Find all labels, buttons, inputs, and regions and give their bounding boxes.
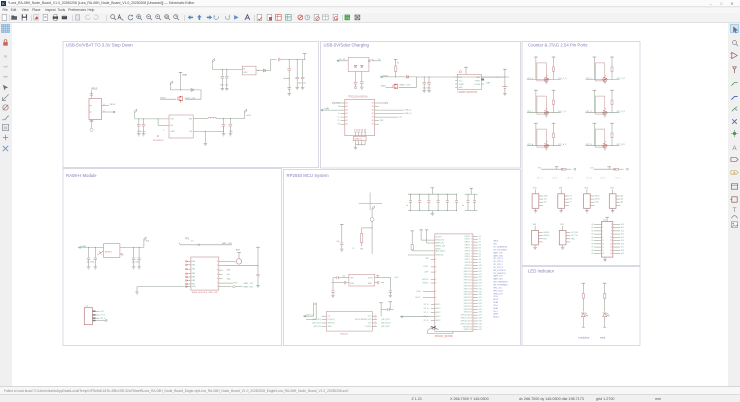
battery BT1 (504, 77, 506, 87)
svg-text:10u 100n: 10u 100n (423, 87, 431, 89)
push button SW red (544, 111, 549, 114)
svg-text:G1: G1 (591, 227, 593, 229)
power tick LED chain ready/low (582, 282, 586, 284)
svg-text:27: 27 (470, 312, 472, 314)
left toolbar icon: close (1, 144, 10, 153)
section box: USB-5V/VBAT TO 3.3V Step Down (63, 42, 319, 168)
svg-text:G7: G7 (479, 256, 481, 258)
capacitor C7 (302, 60, 304, 78)
svg-text:9: 9 (435, 272, 436, 274)
pin stubs J4 (539, 195, 543, 197)
wire module TX (223, 286, 232, 288)
resistor LED chain work (604, 294, 606, 299)
power tick battery rail (503, 68, 507, 70)
bottom tick LED work (603, 326, 606, 328)
svg-text:TEMP: TEMP (459, 84, 465, 86)
svg-text:GP_E: GP_E (424, 320, 430, 322)
svg-text:1: 1 (471, 236, 472, 238)
ground J8 (534, 245, 536, 247)
capacitor C10 (223, 119, 225, 125)
counter box (537, 129, 546, 147)
capacitor C20 on right rail (256, 274, 260, 275)
svg-text:GND: GND (459, 87, 464, 89)
capacitor C13 polarized (360, 82, 364, 83)
net arrow label VBAT to LDO (78, 246, 80, 248)
svg-text:G14: G14 (621, 237, 624, 239)
capacitor C5 (288, 60, 290, 69)
svg-text:G19: G19 (479, 291, 482, 293)
svg-text:2: 2 (471, 239, 472, 241)
svg-text:GP_CNT_U: GP_CNT_U (493, 258, 504, 260)
svg-text:EN: EN (121, 254, 124, 256)
bottom wire (586, 112, 620, 114)
wire LED chain mid ready/low (582, 298, 584, 311)
resistor pullup (614, 168, 619, 170)
svg-text:USB_DM: USB_DM (436, 255, 444, 257)
power flag 3V3 output (244, 113, 246, 119)
wire right stem upper (553, 123, 555, 133)
right rail vertical (257, 247, 259, 274)
wire Q1 drain down (179, 101, 181, 103)
left toolbar icon: hidden pins (1, 103, 10, 112)
power tick output (303, 53, 307, 55)
wire D2 to output rail (266, 60, 277, 71)
capacitor C8 (138, 119, 140, 125)
svg-text:XOUT: XOUT (368, 277, 374, 279)
svg-text:SDA: SDA (227, 277, 232, 280)
left toolbar background (0, 23, 12, 386)
power tick left stem (593, 89, 597, 91)
main toolbar (0, 13, 740, 23)
ground under button (545, 80, 547, 82)
connector J3 USB (345, 99, 375, 135)
wire VBUS chain lower (395, 72, 397, 77)
svg-text:DO(IO1): DO(IO1) (328, 319, 335, 321)
ground module left (136, 287, 138, 292)
svg-text:G3: G3 (591, 234, 593, 236)
section box: RP2040 MCU System (284, 170, 521, 346)
svg-text:B1: B1 (372, 103, 374, 105)
power tick chain C (340, 223, 344, 225)
svg-text:UART_RX1: UART_RX1 (243, 285, 253, 288)
svg-text:16: 16 (470, 280, 472, 282)
svg-text:10: 10 (610, 237, 612, 239)
resistor pullup (561, 168, 566, 170)
capacitor C21 chain C (340, 243, 343, 244)
wire LED chain upper work (604, 283, 606, 293)
wire right stem upper (553, 90, 555, 100)
wire EN tie (157, 119, 159, 125)
wire U1 SW to inductor (193, 118, 208, 120)
capacitor C12 (354, 83, 358, 84)
wire U1 FB (193, 130, 223, 132)
capacitor C2 (221, 69, 223, 76)
svg-text:UART_TX1: UART_TX1 (493, 275, 502, 278)
capacitor C1 (90, 120, 94, 121)
wire left stem (535, 123, 537, 146)
capacitor C14 (423, 77, 425, 82)
toolbar icon: redo (disabled) (93, 14, 100, 21)
svg-text:GPIO3: GPIO3 (465, 247, 470, 249)
svg-text:8: 8 (471, 256, 472, 258)
svg-text:A1: A1 (346, 109, 348, 112)
svg-text:QSPI_SD2: QSPI_SD2 (312, 323, 321, 325)
toolbar icon: rotate ccw (213, 14, 220, 21)
ground U1 path (204, 131, 206, 143)
svg-text:100n 10u: 100n 10u (137, 131, 145, 133)
circle terminal J3 right (386, 102, 388, 104)
svg-text:100u 10u: 100u 10u (298, 83, 306, 85)
transistor Q1 (178, 96, 182, 102)
svg-text:1M: 1M (360, 249, 363, 251)
svg-text:SH: SH (338, 124, 341, 126)
svg-text:A1: A1 (346, 123, 348, 126)
ground under button (604, 80, 606, 82)
capacitor CB7 (467, 194, 469, 200)
svg-text:RST: RST (234, 283, 239, 285)
connector J8 (532, 230, 539, 245)
svg-text:GPIO: GPIO (436, 308, 441, 310)
svg-text:GPIO8: GPIO8 (465, 262, 470, 264)
svg-text:10u 100n: 10u 100n (132, 262, 140, 264)
right toolbar icon: image (730, 220, 739, 229)
svg-text:VB1: VB1 (493, 244, 497, 246)
ground under C13 (361, 83, 363, 87)
toolbar icon: annotate (304, 14, 311, 21)
power flag PWR1 (170, 81, 172, 84)
svg-text:SWDIO: SWDIO (543, 232, 550, 234)
bottom wire (527, 79, 561, 81)
svg-text:ANT: ANT (236, 249, 241, 252)
svg-text:18: 18 (470, 285, 472, 287)
module right pin stubs (219, 260, 223, 262)
svg-text:2: 2 (611, 224, 612, 226)
svg-text:VBAT: VBAT (381, 84, 387, 87)
svg-text:GPIO29_A3: GPIO29_A3 (461, 322, 470, 325)
junction 3v3 rail (258, 265, 259, 266)
wire left stem (535, 90, 537, 113)
svg-text:BAT: BAT (477, 76, 481, 79)
wire tie at C5 (283, 77, 289, 79)
svg-text:GPIO0: GPIO0 (465, 239, 470, 241)
mcu left upper power stems (410, 230, 414, 232)
svg-text:G26: G26 (479, 312, 482, 314)
svg-text:DI(IO0): DI(IO0) (366, 326, 372, 328)
pin stubs J10 right (613, 223, 620, 225)
svg-text:R: R (587, 315, 589, 317)
svg-text:J10: J10 (603, 219, 607, 221)
svg-text:SDA0: SDA0 (493, 301, 498, 304)
svg-text:CNT_X: CNT_X (615, 177, 622, 179)
ground under C3 (226, 78, 228, 89)
svg-text:I2C_SCL0/MISO: I2C_SCL0/MISO (493, 249, 507, 251)
left toolbar icon: units inches (1, 51, 10, 60)
svg-text:EN: EN (170, 125, 173, 127)
wire right stem lower (611, 105, 613, 113)
counter box (537, 63, 546, 81)
flash vertical wires from above (313, 303, 315, 317)
svg-text:GPIO24: GPIO24 (464, 309, 470, 311)
svg-text:GND: GND (170, 131, 175, 133)
pin stubs U4 left (455, 76, 457, 78)
svg-text:GP_CNT_R: GP_CNT_R (493, 267, 504, 269)
svg-text:PA4: PA4 (192, 268, 195, 271)
svg-text:G8: G8 (591, 250, 593, 252)
svg-text:G7: G7 (591, 247, 593, 249)
wire chain A upper (371, 210, 373, 218)
svg-text:G31: G31 (479, 326, 482, 328)
svg-text:SCK: SCK (595, 202, 599, 204)
capacitor C9 (143, 119, 145, 125)
svg-text:GND PAD: GND PAD (432, 328, 440, 331)
right toolbar icon: text (730, 205, 739, 214)
wire left stem (593, 57, 595, 80)
svg-text:SWDIO: SWDIO (422, 282, 429, 284)
svg-text:15: 15 (470, 277, 472, 279)
svg-text:SW: SW (189, 119, 192, 121)
mcu left long wire (408, 254, 435, 256)
svg-text:A1: A1 (346, 105, 348, 108)
svg-text:D-: D- (338, 113, 340, 115)
wire under R4 (361, 243, 363, 247)
ellipse at module TX (232, 286, 235, 288)
svg-text:OSC: OSC (394, 277, 399, 279)
svg-text:8: 8 (611, 234, 612, 236)
status circle at U4 (459, 71, 461, 73)
svg-text:GP_C: GP_C (424, 312, 430, 314)
left toolbar icon: hierarchy (1, 123, 10, 132)
toolbar icon: table (322, 14, 329, 21)
svg-text:GPIO23: GPIO23 (464, 306, 470, 308)
ground under esd (354, 148, 358, 150)
svg-text:VB: VB (338, 106, 341, 108)
toolbar icon: plot (61, 14, 68, 21)
right toolbar icon: add bus (730, 92, 739, 101)
counter box (595, 96, 604, 114)
wire left stem (593, 90, 595, 113)
svg-text:3V3: 3V3 (533, 224, 536, 226)
led D work (603, 313, 609, 317)
svg-text:G17: G17 (479, 285, 482, 287)
svg-text:MCLK: MCLK (493, 299, 499, 301)
ic U2 boost (242, 66, 256, 75)
junction FB (205, 131, 206, 132)
svg-text:CLK: CLK (368, 323, 372, 325)
svg-text:CNT_D_R: CNT_D_R (616, 78, 625, 80)
push button SW red (544, 77, 549, 80)
pin stubs J5 (565, 195, 569, 197)
mcu arrow label left bottom (400, 316, 402, 318)
wire VBAT to Q2 (386, 86, 393, 88)
connector J6 (584, 194, 591, 209)
wire L1 to output node (216, 118, 244, 120)
svg-text:ANT_1G4: ANT_1G4 (222, 242, 232, 245)
wire left stem (535, 57, 537, 80)
svg-text:USB_D-: USB_D- (404, 110, 412, 112)
svg-text:G29: G29 (479, 320, 482, 322)
flash left pin stubs (322, 315, 327, 317)
junction charger rail b (429, 77, 430, 78)
svg-text:PA8: PA8 (192, 276, 195, 279)
power tick right stem (552, 56, 556, 58)
svg-text:CNT_B_R: CNT_B_R (616, 144, 625, 146)
resistor on right stem (611, 100, 613, 104)
svg-text:CNT_D: CNT_D (586, 78, 593, 80)
wire node VBAT to diode (170, 89, 191, 91)
svg-text:18: 18 (610, 250, 612, 252)
svg-text:GND: GND (571, 238, 576, 240)
svg-text:LED Indicator: LED Indicator (528, 268, 555, 273)
pin stubs J10 left (594, 223, 601, 225)
svg-text:VBUS: VBUS (160, 98, 166, 100)
right vertical crystal (389, 278, 391, 291)
svg-text:G11: G11 (479, 268, 482, 270)
left toolbar icon: cursor shape (1, 83, 10, 92)
crystal circle Y1 (370, 218, 374, 222)
wire module 3V3 rail (223, 265, 259, 267)
ground under C24 (332, 292, 334, 295)
antenna connector P1 circle (236, 259, 241, 264)
svg-text:SPI0_SCK1: SPI0_SCK1 (493, 290, 503, 292)
svg-text:1u: 1u (406, 205, 408, 207)
wire right stem lower (611, 71, 613, 79)
resistor on right stem (553, 133, 555, 137)
bottom wire (527, 112, 561, 114)
svg-text:V+: V+ (103, 104, 106, 106)
mcu right pin stubs and numbers (473, 235, 478, 237)
svg-text:SPI0_CS1: SPI0_CS1 (493, 287, 502, 289)
pin 2 of J1 (102, 111, 113, 113)
svg-text:CC: CC (338, 120, 341, 122)
left toolbar icon: units mils (1, 61, 10, 70)
svg-text:VBUS: VBUS (493, 241, 499, 243)
junction charging node (395, 76, 396, 77)
svg-text:J 1: J 1 (86, 306, 89, 308)
svg-text:mil: mil (4, 64, 8, 68)
svg-text:RST: RST (543, 238, 547, 240)
module U7 RA08-H (191, 257, 219, 290)
power tick on pullup (607, 166, 611, 168)
power tick right stem (610, 56, 614, 58)
svg-text:29: 29 (470, 318, 472, 320)
left toolbar icon: units mm (1, 71, 10, 80)
svg-text:G5: G5 (479, 250, 481, 252)
wire to UART labels (235, 286, 242, 288)
wire LED chain lower work (604, 317, 606, 328)
svg-text:FB: FB (189, 131, 192, 133)
flash arrow label (303, 315, 305, 317)
svg-text:SWCLK: SWCLK (464, 329, 471, 331)
power tap tick right (377, 275, 379, 277)
svg-text:B1: B1 (372, 106, 374, 108)
svg-text:3V3: 3V3 (559, 187, 562, 189)
toolbar icon: sim (313, 14, 320, 21)
svg-text:3V3: 3V3 (538, 168, 541, 170)
wire LED chain upper ready/low (582, 283, 584, 293)
arrow label pullup right (626, 168, 628, 170)
svg-text:mm: mm (3, 74, 8, 78)
junction rail 2 (297, 59, 298, 60)
junction chain A (372, 227, 373, 228)
capacitor C3 (226, 69, 228, 76)
wire rail top-right input (212, 68, 242, 70)
toolbar icon: zoom tool (155, 14, 162, 21)
capacitor CB2 (419, 194, 421, 200)
wire right stem lower (553, 71, 555, 79)
wire LED chain lower ready/low (582, 317, 584, 328)
svg-text:G30: G30 (479, 323, 482, 325)
svg-text:22u: 22u (229, 131, 232, 133)
svg-text:GP_RX0: GP_RX0 (571, 232, 578, 234)
toolbar separator (71, 15, 74, 22)
junction esd 2 (361, 144, 362, 145)
svg-text:MISO: MISO (595, 196, 600, 198)
resistor on right stem (553, 67, 555, 71)
svg-text:IOVDD: IOVDD (436, 236, 442, 238)
power pin cap bank (431, 187, 435, 189)
svg-text:GPIO19: GPIO19 (464, 294, 470, 296)
section box: LED Indicator (522, 267, 640, 346)
svg-text:1u: 1u (462, 205, 464, 207)
pads TP1 (198, 244, 199, 246)
svg-text:13: 13 (470, 271, 472, 273)
menu bar (0, 8, 740, 14)
svg-text:CNT_U: CNT_U (527, 78, 534, 80)
svg-text:GPIO2: GPIO2 (465, 245, 470, 247)
capacitor C4 series in top rail (278, 58, 279, 62)
svg-text:V5: V5 (326, 108, 328, 110)
wire F1 to J1 (91, 90, 93, 99)
wire U3 leg 1 (355, 72, 357, 83)
wire U3 leg 2 (361, 72, 363, 82)
ground J6 (586, 208, 588, 210)
ground right rail (256, 286, 260, 288)
svg-text:20: 20 (610, 253, 612, 255)
window title text (8, 1, 194, 5)
svg-text:CNT_L_R: CNT_L_R (558, 111, 567, 113)
svg-text:32: 32 (470, 326, 472, 328)
toolbar separator (183, 15, 186, 22)
ic U4 CN3065 charger (457, 74, 481, 89)
svg-text:G2: G2 (591, 230, 593, 232)
pin stubs U4 right (481, 76, 484, 78)
resistor R5 on stem (411, 245, 413, 250)
svg-text:B1: B1 (372, 120, 374, 122)
svg-text:RUN: RUN (417, 291, 422, 293)
svg-text:G11: G11 (621, 227, 624, 229)
pin stub U6 out (120, 246, 144, 248)
svg-text:GPIO12: GPIO12 (464, 274, 470, 276)
svg-text:PWM_OUT: PWM_OUT (493, 293, 503, 295)
svg-text:GPIO22: GPIO22 (464, 303, 470, 305)
svg-text:G24: G24 (479, 306, 482, 308)
svg-text:17: 17 (602, 250, 604, 252)
toolbar icon: find (110, 14, 117, 21)
svg-text:S: S (546, 75, 548, 77)
svg-text:PA5: PA5 (192, 272, 195, 275)
svg-text:GP_A: GP_A (424, 303, 430, 306)
svg-text:RA08-H Module: RA08-H Module (66, 173, 97, 178)
svg-text:5: 5 (602, 230, 603, 232)
wire pullup right (566, 168, 571, 170)
ground J10 (604, 257, 606, 259)
svg-text:B1: B1 (372, 117, 374, 119)
svg-text:G28: G28 (479, 318, 482, 320)
counter box (595, 129, 604, 147)
svg-text:15: 15 (602, 247, 604, 249)
power tick right stem (552, 122, 556, 124)
svg-text:UART_TX0: UART_TX0 (493, 251, 502, 254)
